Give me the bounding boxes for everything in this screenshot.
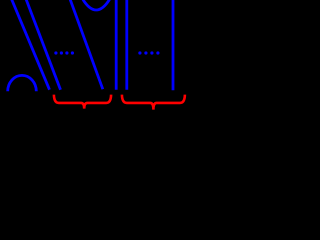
ellipsis dots (right group) xyxy=(138,51,159,54)
strand 3 (diagonal) xyxy=(70,0,103,89)
strand 1 (diagonal, left) xyxy=(12,0,50,90)
strand 6 (vertical, right) xyxy=(172,0,175,90)
strand 5 (vertical) xyxy=(125,0,128,90)
strand 2 (diagonal) xyxy=(26,0,61,90)
cap arc (bottom left) xyxy=(8,75,37,91)
cup arc (top) xyxy=(83,0,110,10)
underbrace A (left group) xyxy=(54,95,111,109)
ellipsis dots (left group) xyxy=(54,51,74,54)
strand 4 (vertical) xyxy=(115,0,118,90)
underbrace B (right group) xyxy=(122,95,185,110)
